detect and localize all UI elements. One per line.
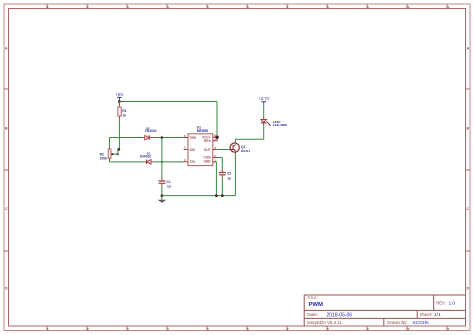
pin-end dot wiper wire — [117, 153, 119, 155]
svg-text:11: 11 — [446, 327, 450, 331]
wire TRI line left of D1 — [110, 161, 145, 163]
svg-text:GND: GND — [204, 160, 212, 164]
svg-text:1N4002: 1N4002 — [145, 129, 157, 133]
svg-text:PWM: PWM — [309, 302, 323, 308]
border column numbers top — [47, 5, 450, 9]
svg-text:Sheet:: Sheet: — [420, 312, 433, 317]
wire THR line left of D2 — [110, 137, 145, 139]
svg-text:A: A — [466, 47, 469, 51]
wire ground rail — [162, 195, 236, 197]
border ticks top — [47, 4, 447, 9]
svg-text:1u: 1u — [227, 176, 231, 180]
svg-text:1N4002: 1N4002 — [140, 155, 152, 159]
svg-text:REV:: REV: — [436, 300, 446, 305]
wire +5V down to VCC pin — [216, 102, 218, 138]
wire pot bottom to TRI line — [109, 160, 111, 162]
border ticks left — [4, 89, 9, 251]
wire C1 to ground rail — [161, 186, 163, 195]
border row letters right — [466, 47, 469, 291]
svg-text:TITLE:: TITLE: — [307, 296, 318, 300]
ground — [158, 196, 167, 203]
border column numbers bottom — [47, 327, 450, 331]
wire LED cathode to collector line — [263, 126, 265, 139]
svg-text:+5V: +5V — [115, 92, 123, 97]
potentiometer R2 — [100, 147, 114, 160]
wire D1 to TRI pin — [153, 161, 184, 163]
svg-text:SCGHk: SCGHk — [413, 320, 430, 326]
junction TRI/C1 crossing — [161, 161, 163, 163]
svg-text:B: B — [5, 127, 8, 131]
svg-text:11: 11 — [446, 5, 450, 9]
junction at +5V node — [118, 100, 121, 103]
junction rail at C2 — [221, 194, 224, 197]
svg-text:D: D — [5, 287, 8, 291]
svg-text:OUT: OUT — [204, 148, 211, 152]
wire OUT to base — [217, 149, 230, 151]
svg-text:10: 10 — [406, 5, 410, 9]
svg-text:C: C — [5, 207, 8, 211]
border row letters left — [5, 47, 8, 291]
wire wiper to DIS node — [113, 149, 118, 154]
svg-text:TRE: TRE — [190, 136, 196, 140]
op-amp U1 NE555 — [184, 126, 218, 166]
net flag +5V — [115, 92, 123, 101]
junction VCC/RES node — [215, 136, 218, 139]
wire D2 to THR pin — [151, 137, 183, 139]
svg-text:BU211: BU211 — [241, 149, 251, 153]
svg-text:A: A — [5, 47, 8, 51]
junction DIS node — [117, 148, 120, 151]
junction THR/C1 node — [161, 136, 164, 139]
svg-text:Date:: Date: — [307, 312, 318, 317]
border ticks bottom — [47, 326, 447, 331]
wire C2 to ground rail — [221, 178, 223, 196]
svg-text:RES: RES — [204, 139, 211, 143]
junction ground rail at C1 — [161, 194, 164, 197]
svg-text:1k: 1k — [122, 113, 126, 117]
wire CON to C2 — [217, 158, 222, 170]
svg-text:1/1: 1/1 — [434, 312, 441, 318]
wire pot top to THR line — [109, 138, 111, 148]
svg-text:100k: 100k — [100, 157, 108, 161]
svg-text:10: 10 — [406, 327, 410, 331]
capacitor C1 — [159, 178, 171, 188]
capacitor C2 — [219, 170, 231, 181]
title block frame — [304, 295, 465, 326]
svg-text:Drawn By:: Drawn By: — [387, 320, 407, 325]
resistor R1 — [118, 102, 127, 120]
svg-text:NE555: NE555 — [197, 129, 208, 133]
svg-text:B: B — [466, 127, 469, 131]
wire emitter to rail — [234, 152, 236, 195]
pin-end dot pot wiper — [112, 153, 114, 155]
wire +3.7V to LED anode — [263, 104, 265, 117]
svg-text:TRI: TRI — [190, 160, 195, 164]
border ticks right — [466, 89, 471, 251]
diode D1 — [140, 151, 154, 164]
wire C1 node vertical — [161, 138, 163, 179]
wire GND pin to rail — [215, 162, 217, 196]
transistor Q1 — [229, 142, 250, 153]
svg-text:C2: C2 — [227, 172, 231, 176]
svg-text:1u: 1u — [167, 184, 171, 188]
wire +5V horizontal rail — [119, 101, 217, 103]
wire R1 to DIS node — [118, 119, 120, 149]
net flag +3.7V — [258, 96, 269, 104]
LED LED1 — [261, 117, 287, 127]
svg-text:D: D — [466, 287, 469, 291]
svg-text:1.0: 1.0 — [449, 301, 456, 306]
junction rail at GND — [215, 194, 218, 197]
svg-text:EasyEDA V5.4.11: EasyEDA V5.4.11 — [307, 320, 342, 325]
svg-text:C: C — [466, 207, 469, 211]
wire collector up — [235, 139, 263, 143]
diode D2 — [143, 127, 157, 140]
svg-text:DIS: DIS — [190, 148, 195, 152]
svg-text:2018-05-06: 2018-05-06 — [327, 312, 353, 318]
svg-text:LED-3MM: LED-3MM — [273, 123, 288, 127]
svg-text:+3.7V: +3.7V — [258, 96, 269, 101]
